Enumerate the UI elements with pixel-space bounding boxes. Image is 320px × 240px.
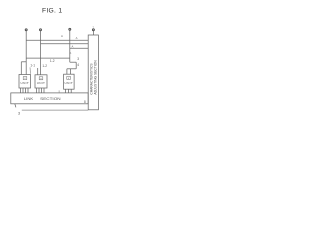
- svg-text:A: A: [61, 34, 63, 38]
- link section box: [11, 93, 88, 104]
- stub wires box 2-1 to link section: [20, 88, 22, 93]
- wire vertical from T2 to box 2-2: [40, 31, 42, 75]
- svg-text:4: 4: [77, 63, 79, 67]
- bus wire horizontal: [26, 57, 70, 59]
- svg-text:3: 3: [18, 111, 20, 115]
- box unit 2-2: [35, 75, 47, 88]
- wire B: horizontal from T2 drop to right box: [41, 43, 89, 45]
- terminal circle T1: [25, 29, 27, 31]
- svg-text:FIG. 1: FIG. 1: [42, 8, 62, 15]
- box unit 2-3: [64, 74, 75, 89]
- leader line from numeral 1-1 to box 2-1: [29, 67, 31, 73]
- svg-text:LINK: LINK: [24, 97, 34, 101]
- wire down into box 2-3 left input: [66, 69, 68, 74]
- zigzag wire horizontal y=62.2: [70, 61, 76, 63]
- zigzag wire horizontal y=68.8: [67, 68, 76, 70]
- box 2-2 inner symbol: [39, 77, 43, 80]
- branch wire left from T1 vertical: [21, 61, 26, 63]
- box unit 2-1: [19, 75, 31, 89]
- terminal circle T3: [69, 28, 71, 30]
- svg-text:UNIT: UNIT: [37, 81, 46, 85]
- branch wire down into box 2-1 left input: [20, 62, 22, 75]
- wire vertical from T3 to bus: [69, 31, 71, 59]
- svg-text:3: 3: [77, 57, 79, 61]
- svg-text:1-1: 1-1: [30, 63, 35, 67]
- svg-text:UNIT: UNIT: [21, 81, 30, 85]
- svg-text:8: 8: [84, 100, 86, 104]
- wire A: horizontal from T1 drop to right box: [26, 39, 88, 41]
- zigzag wire vertical x=76.6: [75, 62, 77, 69]
- stub wire into box 2-2 left input: [37, 68, 39, 75]
- zigzag wire vertical x=69.8: [69, 58, 71, 62]
- terminal circle T2: [40, 29, 42, 31]
- svg-text:1-2: 1-2: [50, 59, 55, 63]
- wire down into box 2-3 right input: [70, 69, 72, 74]
- wire vertical from T4 to characteristic section box: [92, 31, 94, 35]
- wire vertical from T1 to box 2-1: [25, 31, 27, 75]
- svg-text:ADJUSTING SECTION: ADJUSTING SECTION: [94, 60, 98, 95]
- svg-text:A: A: [69, 51, 71, 55]
- terminal circle T4: [92, 29, 94, 31]
- tick mark left of box 2-3 stubs: [58, 90, 60, 93]
- box 2-1 inner symbol: [23, 77, 27, 80]
- box 2-3 inner symbol: [67, 76, 71, 79]
- svg-text:UNIT: UNIT: [65, 81, 74, 85]
- stub wires box 2-3 to link section: [65, 89, 67, 93]
- wire stub from T3 vertical to right box: [70, 47, 88, 49]
- characteristic section box: [88, 35, 98, 110]
- underline bracket from numeral 3 to characteristic box: [22, 109, 88, 111]
- svg-text:A: A: [76, 36, 78, 40]
- svg-text:A: A: [72, 44, 74, 48]
- leader line to numeral 3 below link section: [15, 104, 16, 108]
- stub wires box 2-2 to link section: [36, 88, 38, 93]
- svg-text:SECTION: SECTION: [40, 97, 61, 101]
- svg-text:1-2: 1-2: [42, 64, 47, 68]
